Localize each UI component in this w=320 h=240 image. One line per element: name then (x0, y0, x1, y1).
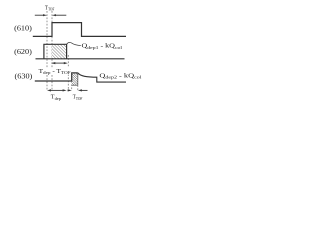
dimension arrow T_dep - T_TOF (mid) (51, 62, 68, 64)
dashed extension line D (x=71.7) (71, 81, 73, 91)
waveform 630 (35, 73, 78, 81)
dimension T_TOF bottom (68, 89, 88, 91)
dashed extension line C (x=68.3) (67, 55, 69, 91)
svg-text:(630): (630) (15, 71, 33, 80)
hatch region Q_dep2 (72, 73, 78, 85)
leader to Q_dep1 label (67, 42, 81, 45)
hatch right edge (77, 73, 79, 85)
dimension T_TOF top (35, 14, 67, 16)
hatch bottom edge (72, 84, 78, 86)
svg-text:(610): (610) (14, 23, 32, 32)
svg-text:TTOF: TTOF (45, 4, 55, 11)
waveform 610 (33, 23, 126, 37)
dashed extension line A (x=47) (46, 11, 48, 91)
dashed extension line B (x=52) (51, 11, 53, 91)
label T_dep - T_TOF backing (38, 68, 70, 75)
waveform 630 decay tail (78, 73, 126, 82)
dimension T_dep bottom (47, 89, 67, 91)
waveform 620 (36, 44, 125, 59)
hatch region Q_dep1 (52, 44, 67, 59)
svg-text:(620): (620) (14, 47, 32, 56)
dashed extension line E (x=77.8) (77, 85, 79, 91)
